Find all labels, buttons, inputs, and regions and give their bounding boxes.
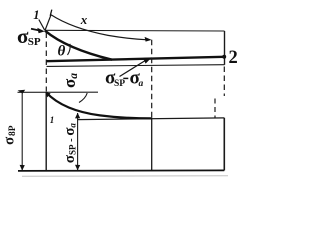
tick at T (50, 10, 52, 16)
faint scan line bottom right (22, 175, 228, 178)
small arrow at bottom box top corner (45, 92, 50, 97)
down arrow at left dimension bottom (20, 165, 25, 171)
right edge of top diagram (224, 31, 226, 65)
node 2 dot (222, 55, 226, 59)
dashed vertical below hub (45, 33, 47, 92)
dashed vertical 2 at x=215 (214, 99, 216, 118)
svg-text:1: 1 (33, 8, 39, 22)
top reference line A (initial level) (45, 29, 225, 32)
svg-text:8P: 8P (8, 125, 18, 136)
thick final-stress line B ending at node 2 (47, 57, 224, 61)
x dimension leader from tick T to dashed line (51, 15, 148, 40)
bottom box bottom edge (18, 169, 224, 172)
leader line for label 1 (39, 20, 45, 31)
thick stress curve (bottom diagram) (46, 93, 152, 119)
extension line hub to T (45, 15, 51, 31)
svg-text:2: 2 (229, 48, 238, 68)
svg-text:σ: σ (2, 136, 18, 145)
dashed vertical 1 at x=151.7 (151, 40, 153, 118)
svg-text:1: 1 (50, 115, 55, 125)
thick stress curve 1 (top diagram) (45, 31, 112, 60)
solid continuation of vertical 1 inside bottom box (151, 118, 153, 171)
arrow from sigma_SP to hub (31, 29, 39, 31)
baseline C of top diagram (47, 65, 225, 67)
bottom box right edge (223, 118, 225, 171)
svg-text:SP: SP (114, 79, 125, 89)
dimension vertical sigma_SP - sigma_a in bottom box (77, 113, 79, 170)
dashed vertical 3 below right corner (223, 67, 225, 97)
svg-text:a: a (139, 79, 144, 89)
svg-text:x: x (80, 12, 88, 27)
theta angle arc (68, 44, 71, 55)
left dimension vertical for sigma_8P (21, 92, 23, 170)
top line E of bottom diagram (18, 91, 99, 93)
svg-text:θ: θ (58, 44, 66, 60)
leader from sigma_SP - sigma_a label to corner (120, 60, 147, 77)
flat final level line in bottom box (78, 118, 225, 120)
arrowhead of x leader (145, 37, 152, 42)
svg-text:SP: SP (28, 36, 41, 48)
bottom box left edge (45, 92, 47, 170)
small angle arc in bottom box (79, 93, 87, 103)
up arrow at left dimension top (18, 90, 26, 94)
